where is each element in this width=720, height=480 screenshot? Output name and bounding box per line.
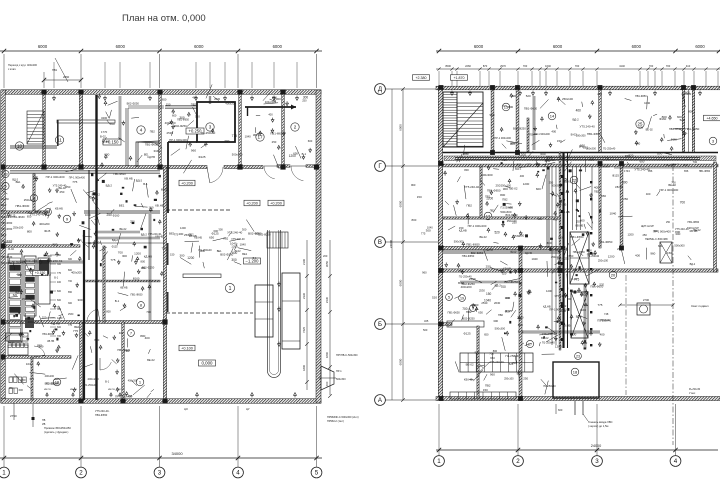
svg-text:600: 600 xyxy=(57,326,62,329)
svg-text:775: 775 xyxy=(664,163,669,167)
svg-text:ПВ2: ПВ2 xyxy=(223,237,228,240)
svg-text:250: 250 xyxy=(523,377,528,381)
svg-text:5: 5 xyxy=(315,470,319,477)
svg-text:ПВ1-Ф630: ПВ1-Ф630 xyxy=(15,204,29,208)
svg-text:УТ5.240-40-: УТ5.240-40- xyxy=(53,184,67,188)
svg-text:Ф160: Ф160 xyxy=(671,138,677,141)
left plan right outside funnel symbol xyxy=(321,366,334,390)
right plan right outer wall segment xyxy=(714,162,717,272)
right plan bench row xyxy=(450,392,516,399)
svg-text:300: 300 xyxy=(68,258,73,261)
svg-text:+0.150: +0.150 xyxy=(35,271,46,275)
svg-text:ПР-1: ПР-1 xyxy=(336,370,342,373)
svg-text:250х100: 250х100 xyxy=(551,255,561,259)
svg-text:700: 700 xyxy=(146,310,151,314)
svg-text:960: 960 xyxy=(490,372,495,376)
svg-text:2: 2 xyxy=(79,470,83,477)
svg-text:250: 250 xyxy=(623,197,628,201)
svg-text:960: 960 xyxy=(191,148,196,152)
svg-text:1770: 1770 xyxy=(101,130,108,134)
svg-text:ПВ1-Ф650: ПВ1-Ф650 xyxy=(699,170,711,173)
svg-text:КД.НВ: КД.НВ xyxy=(51,321,60,325)
svg-text:КВ.НБ: КВ.НБ xyxy=(155,235,163,239)
svg-text:В-1: В-1 xyxy=(143,182,148,186)
svg-text:700: 700 xyxy=(649,64,654,68)
svg-text:11: 11 xyxy=(57,138,62,143)
svg-text:650: 650 xyxy=(27,215,32,219)
svg-text:КД.НВ: КД.НВ xyxy=(147,155,155,159)
svg-text:ВЕ1: ВЕ1 xyxy=(119,204,125,208)
svg-text:В-02: В-02 xyxy=(518,329,524,333)
svg-text:500х300: 500х300 xyxy=(674,244,685,248)
right plan bottom room box xyxy=(553,362,599,398)
svg-text:400: 400 xyxy=(553,217,558,221)
svg-text:ПР-1 900х400: ПР-1 900х400 xyxy=(69,177,86,180)
left plan top wall vents xyxy=(53,98,56,101)
svg-text:1800: 1800 xyxy=(325,351,329,358)
svg-text:800: 800 xyxy=(662,115,667,119)
svg-text:650: 650 xyxy=(209,235,214,239)
left plan hall dashed beam xyxy=(166,312,253,314)
right plan below-bottom labels xyxy=(582,401,584,415)
svg-text:6000: 6000 xyxy=(273,44,283,49)
svg-text:УТ5.240-40-: УТ5.240-40- xyxy=(490,360,505,364)
right plan duct shaft lower xyxy=(571,292,588,338)
svg-text:700: 700 xyxy=(575,64,580,68)
right plan lower partition wall xyxy=(477,326,479,398)
svg-text:960: 960 xyxy=(47,254,52,258)
svg-text:600: 600 xyxy=(536,187,541,191)
svg-text:800: 800 xyxy=(508,105,513,109)
left plan duct runs xyxy=(165,105,197,107)
svg-text:500х300: 500х300 xyxy=(576,134,586,138)
svg-text:700: 700 xyxy=(224,139,230,143)
left plan stair top-left xyxy=(27,111,44,144)
svg-text:150: 150 xyxy=(519,234,524,238)
svg-text:520: 520 xyxy=(494,231,499,235)
left plan texture cluster upper right rooms xyxy=(259,131,262,134)
svg-text:1743: 1743 xyxy=(624,169,630,173)
svg-text:775: 775 xyxy=(73,329,78,333)
svg-text:6000: 6000 xyxy=(399,200,403,207)
svg-text:2060: 2060 xyxy=(63,75,70,79)
svg-text:20: 20 xyxy=(611,272,616,277)
svg-text:ПВ1-Ф630: ПВ1-Ф630 xyxy=(12,215,25,219)
svg-text:748: 748 xyxy=(604,312,609,316)
svg-text:300: 300 xyxy=(179,254,184,258)
svg-text:В-1: В-1 xyxy=(1,210,5,213)
svg-text:+2.380: +2.380 xyxy=(415,76,426,80)
svg-text:775: 775 xyxy=(458,269,463,273)
left plan column bubbles xyxy=(0,467,9,478)
svg-text:ПВ2: ПВ2 xyxy=(502,198,508,202)
svg-text:(сделать у фундам.): (сделать у фундам.) xyxy=(44,430,69,434)
svg-text:22: 22 xyxy=(572,177,577,182)
svg-text:250: 250 xyxy=(548,180,553,184)
svg-text:800: 800 xyxy=(518,323,523,327)
svg-text:ПВ1-Ф650: ПВ1-Ф650 xyxy=(95,413,108,417)
svg-text:5: 5 xyxy=(4,184,6,188)
svg-text:1040: 1040 xyxy=(531,257,538,261)
svg-text:250: 250 xyxy=(60,190,65,194)
svg-text:В-1: В-1 xyxy=(54,276,58,279)
svg-text:700: 700 xyxy=(693,160,698,164)
svg-text:ПРЯМ-2 (1шт): ПРЯМ-2 (1шт) xyxy=(327,419,344,423)
svg-text:960: 960 xyxy=(489,113,494,117)
svg-text:ЦО: ЦО xyxy=(184,407,188,411)
svg-text:800: 800 xyxy=(589,157,594,161)
svg-text:КД.НВ: КД.НВ xyxy=(486,248,494,251)
svg-text:6000: 6000 xyxy=(553,44,563,49)
left plan bottom dimension line xyxy=(0,457,322,459)
svg-text:1200: 1200 xyxy=(555,344,562,348)
left plan heavy duct room 17-2 xyxy=(245,106,296,108)
svg-text:1200: 1200 xyxy=(519,153,526,157)
svg-text:656: 656 xyxy=(684,169,689,173)
svg-text:400х200: 400х200 xyxy=(71,270,82,274)
svg-text:Ф125: Ф125 xyxy=(612,174,619,178)
svg-text:КВ.НБ: КВ.НБ xyxy=(47,340,54,343)
svg-text:400х200: 400х200 xyxy=(225,101,236,105)
right plan duct column xyxy=(562,152,564,348)
svg-text:2700: 2700 xyxy=(643,298,650,302)
svg-text:П1-250х40: П1-250х40 xyxy=(542,341,555,345)
svg-text:1200: 1200 xyxy=(546,289,552,293)
svg-text:250: 250 xyxy=(474,303,479,307)
svg-text:400: 400 xyxy=(178,232,183,236)
svg-text:400: 400 xyxy=(600,333,605,337)
right plan middle walls xyxy=(443,246,565,249)
svg-text:ПВ1-Ф630: ПВ1-Ф630 xyxy=(42,333,54,336)
svg-text:Ф125: Ф125 xyxy=(463,331,471,335)
svg-text:650: 650 xyxy=(162,98,167,102)
svg-text:ВД-2: ВД-2 xyxy=(106,183,113,187)
svg-text:ВД-2: ВД-2 xyxy=(136,178,143,182)
svg-text:0,000: 0,000 xyxy=(202,361,214,366)
svg-text:600: 600 xyxy=(57,290,62,293)
svg-text:КВ.НБ: КВ.НБ xyxy=(253,134,260,137)
left plan hall stair xyxy=(267,232,288,248)
right plan riser blobs xyxy=(561,175,564,178)
svg-text:ИВ ПВ: ИВ ПВ xyxy=(108,389,115,391)
svg-text:775: 775 xyxy=(174,233,179,237)
right plan top wall vents xyxy=(451,93,454,96)
svg-text:ВД-2: ВД-2 xyxy=(1,234,7,237)
svg-text:300: 300 xyxy=(493,319,498,323)
svg-text:УТ5.240-40: УТ5.240-40 xyxy=(580,124,596,128)
left plan top dimension line xyxy=(0,50,322,52)
svg-text:ПВ1-Ф650: ПВ1-Ф650 xyxy=(1,222,13,225)
svg-text:4: 4 xyxy=(674,458,678,465)
svg-text:2530: 2530 xyxy=(68,313,74,316)
svg-text:455: 455 xyxy=(128,394,133,398)
svg-text:В02-Ф250: В02-Ф250 xyxy=(127,102,140,106)
svg-text:ЦУ: ЦУ xyxy=(246,407,250,411)
svg-text:13: 13 xyxy=(3,172,7,176)
svg-text:2100: 2100 xyxy=(302,259,306,265)
svg-text:150: 150 xyxy=(22,297,27,301)
svg-text:В-1: В-1 xyxy=(253,257,258,260)
svg-text:ПВ2: ПВ2 xyxy=(498,313,504,317)
svg-text:УТ5.240-40: УТ5.240-40 xyxy=(634,168,650,172)
svg-text:7: 7 xyxy=(130,331,132,335)
svg-text:КВ.НБ: КВ.НБ xyxy=(120,287,128,290)
svg-text:КВ.НБ: КВ.НБ xyxy=(575,223,583,227)
svg-text:1040: 1040 xyxy=(230,242,237,246)
right plan room circles xyxy=(502,103,510,111)
svg-text:775: 775 xyxy=(574,278,580,282)
svg-text:КВ.НБ: КВ.НБ xyxy=(562,324,570,328)
left plan duct drop xyxy=(168,141,197,143)
svg-text:700: 700 xyxy=(57,335,62,338)
svg-text:ВЕ1: ВЕ1 xyxy=(242,252,247,256)
svg-text:УТ5.240-40: УТ5.240-40 xyxy=(675,227,689,231)
right plan main stair xyxy=(443,92,457,147)
svg-text:В02-Ф250: В02-Ф250 xyxy=(174,124,187,128)
svg-text:300: 300 xyxy=(638,125,643,129)
svg-text:6000: 6000 xyxy=(474,44,484,49)
svg-text:ВД-2: ВД-2 xyxy=(495,283,502,287)
svg-text:520: 520 xyxy=(526,94,531,98)
svg-text:775: 775 xyxy=(162,246,167,250)
svg-text:650: 650 xyxy=(490,356,495,360)
svg-text:600: 600 xyxy=(19,388,24,392)
svg-text:800: 800 xyxy=(464,168,469,172)
svg-text:КВ.НБ: КВ.НБ xyxy=(124,176,132,180)
svg-text:800: 800 xyxy=(546,241,551,245)
svg-text:400: 400 xyxy=(646,192,651,196)
svg-text:2330: 2330 xyxy=(325,296,329,303)
svg-text:6000: 6000 xyxy=(194,44,204,49)
svg-text:ВД-2: ВД-2 xyxy=(112,238,119,242)
right plan top level boxes xyxy=(413,75,430,81)
svg-text:5: 5 xyxy=(448,295,450,299)
svg-text:250: 250 xyxy=(130,220,135,224)
left plan hall inner dim column xyxy=(306,240,308,390)
svg-text:250: 250 xyxy=(576,220,581,224)
svg-text:ПР-1 900х400: ПР-1 900х400 xyxy=(468,224,487,228)
svg-text:400х200: 400х200 xyxy=(587,253,597,256)
svg-text:В02-Ф250: В02-Ф250 xyxy=(1,262,13,265)
svg-text:Ф125: Ф125 xyxy=(212,231,220,235)
svg-text:400: 400 xyxy=(268,112,273,116)
svg-text:300: 300 xyxy=(68,302,73,305)
svg-text:КВ.НБ: КВ.НБ xyxy=(561,210,569,214)
svg-text:300: 300 xyxy=(122,254,127,258)
svg-text:1: 1 xyxy=(2,470,6,477)
left plan equipment rect 2 xyxy=(282,273,300,349)
svg-text:2330: 2330 xyxy=(302,293,306,299)
left plan WC fixtures xyxy=(9,377,12,383)
left plan lower zone walls xyxy=(1,321,165,324)
svg-text:ПР-1 900х400: ПР-1 900х400 xyxy=(549,307,567,311)
svg-text:250: 250 xyxy=(642,233,647,237)
svg-text:800: 800 xyxy=(517,163,522,167)
svg-text:7425: 7425 xyxy=(302,327,306,333)
left plan hall bench xyxy=(57,120,115,123)
svg-text:1040: 1040 xyxy=(544,159,550,163)
svg-text:1: 1 xyxy=(437,458,441,465)
left plan equipment rect 1 xyxy=(255,285,273,337)
svg-text:ПВ1-Ф650: ПВ1-Ф650 xyxy=(570,235,584,239)
svg-text:400: 400 xyxy=(583,341,588,345)
svg-text:520: 520 xyxy=(509,362,514,366)
svg-text:В-1: В-1 xyxy=(302,152,307,156)
svg-text:800: 800 xyxy=(587,249,592,253)
svg-text:300: 300 xyxy=(538,217,543,221)
svg-text:ВЕ-02: ВЕ-02 xyxy=(479,235,487,239)
svg-text:В02-Ф250: В02-Ф250 xyxy=(142,266,155,270)
svg-text:1200: 1200 xyxy=(486,197,493,201)
svg-text:650: 650 xyxy=(484,333,489,337)
svg-text:П1-250х40: П1-250х40 xyxy=(84,384,97,387)
svg-text:1200: 1200 xyxy=(523,182,530,186)
svg-text:520: 520 xyxy=(535,162,540,166)
right plan sub-dimension row xyxy=(436,68,720,70)
svg-text:4: 4 xyxy=(140,128,143,133)
svg-text:200: 200 xyxy=(323,254,328,258)
svg-text:775: 775 xyxy=(110,258,115,262)
svg-text:УТ5.240-40-: УТ5.240-40- xyxy=(95,409,109,413)
svg-text:Ф125: Ф125 xyxy=(44,229,51,233)
svg-text:300: 300 xyxy=(218,227,223,231)
svg-text:ПВ2: ПВ2 xyxy=(45,273,51,277)
svg-text:600: 600 xyxy=(325,381,329,386)
svg-text:ПВ1-Ф630: ПВ1-Ф630 xyxy=(1,256,13,259)
svg-text:УТ5.240-40-: УТ5.240-40- xyxy=(47,259,63,263)
svg-text:ПВ1-Ф630: ПВ1-Ф630 xyxy=(524,107,538,111)
left plan hall radiators xyxy=(57,120,59,146)
svg-text:150: 150 xyxy=(417,195,422,199)
left plan vertical duct shafts xyxy=(95,95,97,400)
svg-text:2530: 2530 xyxy=(546,155,552,159)
svg-text:500х300: 500х300 xyxy=(586,146,597,150)
svg-text:3: 3 xyxy=(209,125,212,130)
svg-text:( кериз ) до 1,5м: ( кериз ) до 1,5м xyxy=(588,424,609,428)
svg-text:ВД-2: ВД-2 xyxy=(141,232,148,236)
svg-text:КВ.НБ: КВ.НБ xyxy=(55,206,63,210)
left plan panel fills xyxy=(10,265,21,271)
left plan texture cluster small rooms left xyxy=(71,189,77,203)
svg-text:400: 400 xyxy=(16,273,21,277)
svg-text:В-1: В-1 xyxy=(115,299,120,303)
svg-text:700: 700 xyxy=(500,285,506,289)
svg-text:775: 775 xyxy=(57,272,62,275)
left plan corridor wall xyxy=(5,166,207,169)
svg-text:1800: 1800 xyxy=(302,365,306,371)
svg-text:3400: 3400 xyxy=(101,116,108,120)
svg-text:УТ5.240-40-: УТ5.240-40- xyxy=(464,185,480,189)
svg-text:ПВ2: ПВ2 xyxy=(125,349,131,353)
right plan top band partitions xyxy=(491,89,494,152)
svg-text:700: 700 xyxy=(27,211,32,215)
svg-text:ВД-2: ВД-2 xyxy=(690,262,696,266)
svg-text:24000: 24000 xyxy=(389,239,393,248)
svg-text:В-02: В-02 xyxy=(8,247,14,251)
svg-text:1200: 1200 xyxy=(187,256,194,260)
svg-text:775: 775 xyxy=(72,180,77,184)
left plan outer walls xyxy=(1,90,321,95)
svg-text:1200: 1200 xyxy=(180,226,186,230)
svg-text:600: 600 xyxy=(625,154,630,158)
svg-text:ПВ1-Ф650: ПВ1-Ф650 xyxy=(685,127,699,131)
svg-text:650: 650 xyxy=(293,151,298,155)
svg-text:1200: 1200 xyxy=(134,252,141,256)
svg-text:650: 650 xyxy=(478,310,483,314)
svg-text:ПВ2: ПВ2 xyxy=(485,383,491,387)
svg-text:6000: 6000 xyxy=(695,44,705,49)
svg-text:3: 3 xyxy=(595,458,599,465)
svg-text:П1-250х40: П1-250х40 xyxy=(201,131,216,135)
svg-text:400х200: 400х200 xyxy=(39,222,50,226)
svg-text:700: 700 xyxy=(523,64,528,68)
svg-text:ПРУНВ-С-500х300: ПРУНВ-С-500х300 xyxy=(336,354,358,357)
svg-text:Б: Б xyxy=(378,321,382,328)
svg-text:18: 18 xyxy=(573,369,578,374)
svg-text:700: 700 xyxy=(666,64,671,68)
svg-text:600: 600 xyxy=(505,310,510,314)
svg-text:ВЕ-02: ВЕ-02 xyxy=(564,181,572,184)
svg-text:Ф160: Ф160 xyxy=(510,249,517,253)
svg-text:КВ.НБ: КВ.НБ xyxy=(155,204,164,208)
svg-text:775: 775 xyxy=(232,134,238,138)
svg-text:250: 250 xyxy=(486,265,491,269)
svg-text:1200: 1200 xyxy=(558,235,565,239)
svg-text:600: 600 xyxy=(658,244,663,248)
svg-text:2970: 2970 xyxy=(500,64,506,68)
svg-text:КВ.НБ: КВ.НБ xyxy=(615,185,623,189)
svg-text:400х200: 400х200 xyxy=(681,92,691,96)
svg-text:150: 150 xyxy=(557,139,562,143)
svg-text:250х100: 250х100 xyxy=(13,226,24,230)
right plan wall junction piers xyxy=(439,85,444,90)
right plan extra walls xyxy=(443,217,560,219)
svg-text:600: 600 xyxy=(558,408,563,412)
svg-text:775: 775 xyxy=(68,324,73,327)
svg-text:2630: 2630 xyxy=(494,301,501,305)
svg-text:600: 600 xyxy=(571,332,577,336)
svg-text:ПВ1-Ф650: ПВ1-Ф650 xyxy=(587,132,601,136)
svg-text:ПВ2: ПВ2 xyxy=(594,190,599,193)
svg-text:ВЕ1: ВЕ1 xyxy=(16,181,21,184)
left plan equipment room panels xyxy=(8,254,22,342)
svg-text:2530: 2530 xyxy=(469,277,476,281)
svg-text:1640: 1640 xyxy=(545,64,551,68)
svg-text:150: 150 xyxy=(459,226,464,230)
svg-text:ВЕ-02: ВЕ-02 xyxy=(147,358,155,362)
svg-text:П1-250х40: П1-250х40 xyxy=(501,206,514,209)
svg-text:ПВ2: ПВ2 xyxy=(191,103,197,107)
svg-text:В-1: В-1 xyxy=(78,238,83,242)
svg-text:ПВ1-Ф650: ПВ1-Ф650 xyxy=(687,221,699,224)
svg-text:400х200: 400х200 xyxy=(28,320,40,324)
svg-text:ПВ1-Ф650: ПВ1-Ф650 xyxy=(447,310,460,314)
svg-text:1040: 1040 xyxy=(609,212,616,216)
left plan duct loop room 3 xyxy=(197,102,235,142)
svg-text:1200: 1200 xyxy=(199,249,205,253)
svg-text:УТ5.240-40-: УТ5.240-40- xyxy=(555,295,569,298)
svg-text:+0.200: +0.200 xyxy=(270,201,282,205)
svg-text:8: 8 xyxy=(140,303,142,307)
svg-text:960: 960 xyxy=(463,151,468,155)
svg-text:4: 4 xyxy=(236,470,240,477)
svg-text:325: 325 xyxy=(424,319,429,323)
svg-text:400х200: 400х200 xyxy=(87,377,99,381)
svg-text:250: 250 xyxy=(617,247,622,251)
svg-text:2750: 2750 xyxy=(10,414,17,418)
svg-text:400: 400 xyxy=(551,130,556,134)
svg-text:ПВ1-Ф630: ПВ1-Ф630 xyxy=(669,127,682,131)
